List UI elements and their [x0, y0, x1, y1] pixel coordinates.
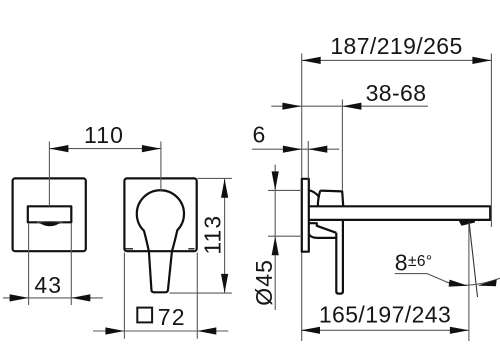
- arrow D45 top: [272, 171, 279, 190]
- cover fillet to plate: [309, 190, 319, 197]
- arrow 165 right: [450, 327, 469, 334]
- svg-text:110: 110: [84, 122, 124, 148]
- extension 6 right: [307, 141, 309, 179]
- arrow 6 right: [308, 146, 327, 153]
- dimension 110 line: [49, 148, 160, 150]
- svg-text:187/219/265: 187/219/265: [330, 33, 462, 59]
- svg-text:165/197/243: 165/197/243: [319, 302, 451, 328]
- dimension 113 extension bottom: [170, 292, 232, 294]
- extension D45 top: [268, 189, 302, 191]
- aerator (front view, filled): [39, 223, 62, 227]
- spout front rectangle: [28, 206, 72, 222]
- svg-text:8±6°: 8±6°: [395, 250, 433, 276]
- arrow 187 left: [302, 57, 321, 64]
- arrow 43 right: [71, 294, 90, 301]
- arrow 6 left: [283, 146, 302, 153]
- screw slot right: [188, 248, 194, 250]
- svg-text:43: 43: [34, 272, 62, 298]
- svg-text:38-68: 38-68: [366, 80, 427, 106]
- dimension 72 line: [93, 330, 228, 332]
- cartridge cover top (side view): [320, 191, 343, 206]
- arrow 113 bottom: [221, 274, 228, 293]
- arrow 187 right: [472, 57, 491, 64]
- extension D45 bottom: [268, 235, 302, 237]
- arrow 110 right: [142, 145, 161, 152]
- arrow 43 left: [10, 294, 29, 301]
- arrow 165 left: [301, 327, 320, 334]
- lever grip rod (side view): [336, 220, 343, 294]
- arrow 38-68 right: [342, 103, 361, 110]
- extension 38-68 right: [341, 100, 343, 192]
- center line right square: [160, 142, 162, 191]
- svg-text:113: 113: [199, 215, 225, 255]
- wall reference line (side view): [301, 54, 303, 342]
- aerator (side view, filled): [459, 221, 475, 226]
- extension 187 right: [490, 54, 492, 228]
- lever base curve to plate: [309, 234, 317, 238]
- arrow angle right: [478, 279, 497, 286]
- vertical reference line from aerator: [468, 223, 470, 342]
- lever neck (side view): [309, 223, 337, 233]
- arrow angle left: [449, 280, 468, 287]
- arrow 113 top: [221, 179, 228, 198]
- arrow 72 left: [105, 327, 124, 334]
- dimension 113 line: [224, 179, 226, 293]
- arrow D45 bottom: [272, 236, 279, 255]
- angle arc: [446, 278, 500, 285]
- square symbol of 72: [137, 308, 152, 323]
- cartridge cover left edge: [318, 191, 320, 206]
- tilted water stream line (8 deg): [469, 223, 477, 297]
- angle leader and arc: [395, 274, 449, 283]
- dimension 72 extension lines: [124, 253, 197, 339]
- center line left square: [48, 142, 50, 207]
- arrow 38-68 left: [282, 103, 301, 110]
- spout (side view): [309, 206, 490, 220]
- arrow 72 right: [197, 327, 216, 334]
- dimension 165/197/243 line: [301, 329, 469, 331]
- svg-text:6: 6: [253, 122, 267, 148]
- wall plate square (front view, spout escutcheon): [13, 178, 86, 251]
- screw slot left: [125, 248, 133, 250]
- aerator bump line: [37, 221, 63, 224]
- svg-text:72: 72: [158, 304, 186, 330]
- svg-text:Ø45: Ø45: [251, 259, 277, 306]
- dimension 43 extension lines: [29, 223, 72, 305]
- dimension 38-68 line: [271, 105, 428, 107]
- arrow 110 left: [49, 145, 68, 152]
- lever base bottom (side view): [317, 237, 336, 239]
- dimension 187/219/265 line: [302, 59, 492, 61]
- dimension 43 line: [3, 297, 103, 299]
- handle lever (front view): [137, 190, 184, 292]
- dimension D45 line: [274, 165, 276, 310]
- escutcheon plate (side view): [302, 179, 309, 252]
- dimension 6 line: [252, 148, 339, 150]
- dimension 113 extension top: [198, 177, 232, 179]
- handle plate square (front view): [124, 178, 196, 251]
